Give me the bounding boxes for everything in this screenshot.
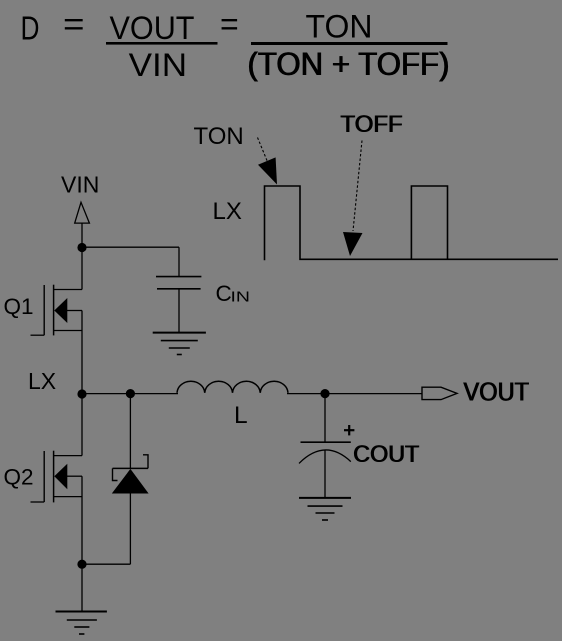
capacitor COUT top lead <box>324 394 326 443</box>
wire ground node to diode <box>82 563 130 565</box>
wire Q1 source to LX <box>81 311 83 395</box>
node ground junction dot <box>77 560 86 569</box>
Q2 gate bar <box>43 451 45 502</box>
svg-text:C: C <box>216 281 232 306</box>
formula fraction bar 1 <box>106 42 218 45</box>
svg-text:(TON + TOFF): (TON + TOFF) <box>248 46 450 82</box>
Q2 source lead <box>54 496 82 498</box>
waveform LX trace <box>265 186 559 260</box>
Q1 drain wire <box>81 248 83 290</box>
capacitor CIN top plate <box>156 276 201 278</box>
svg-text:TON: TON <box>194 123 244 150</box>
svg-text:IN: IN <box>231 290 251 306</box>
capacitor COUT curved plate <box>299 450 351 463</box>
wire VIN node to CIN <box>82 246 179 248</box>
diode D1 top lead <box>129 394 131 469</box>
wire VIN arrow to node <box>81 223 83 243</box>
Q1 body arrow <box>54 298 67 323</box>
Q2 channel bar <box>53 451 55 503</box>
VOUT terminal tag <box>422 387 457 399</box>
diode D1 cathode bar <box>113 467 149 469</box>
Q2 gate stub <box>31 501 45 503</box>
Q1 drain lead <box>54 289 82 291</box>
svg-text:Q2: Q2 <box>4 464 34 489</box>
wire Q2 source to ground node <box>81 476 83 564</box>
Q2 drain lead <box>54 455 82 457</box>
capacitor CIN bottom plate <box>157 288 201 290</box>
Q1 source lead <box>54 330 82 332</box>
svg-text:TON: TON <box>306 8 373 44</box>
Q2 body arrow <box>54 464 67 490</box>
Q1 gate stub <box>31 334 45 336</box>
diode D1 cathode left hook <box>113 468 118 480</box>
node LX junction dot <box>77 389 86 398</box>
svg-text:VOUT: VOUT <box>464 377 530 407</box>
wire inductor to VOUT tag <box>287 393 422 395</box>
svg-text:D: D <box>21 10 40 47</box>
node VIN junction dot <box>77 243 86 252</box>
wire LX to inductor <box>82 393 178 395</box>
diode D1 cathode right hook <box>143 455 148 469</box>
node diode junction dot <box>126 389 135 398</box>
svg-text:VOUT: VOUT <box>110 10 195 46</box>
wire ground node down <box>81 564 83 611</box>
ground below CIN <box>153 333 206 355</box>
capacitor CIN bottom lead <box>178 289 180 333</box>
node COUT junction dot <box>320 389 329 398</box>
svg-text:COUT: COUT <box>354 441 420 468</box>
Q1 channel bar <box>53 285 55 336</box>
inductor L <box>177 381 288 393</box>
svg-text:LX: LX <box>28 368 56 394</box>
svg-text:L: L <box>234 402 248 429</box>
svg-text:VIN: VIN <box>61 172 99 198</box>
capacitor COUT plus sign <box>344 425 354 435</box>
VIN terminal arrow <box>75 202 90 223</box>
ground below COUT <box>299 498 351 520</box>
Q1 gate bar <box>43 285 45 335</box>
diode D1 bottom lead <box>129 494 131 565</box>
svg-text:LX: LX <box>213 198 242 225</box>
waveform TOFF arrow leader <box>353 141 362 232</box>
capacitor CIN top lead <box>178 247 180 276</box>
Q2 drain wire <box>81 394 83 456</box>
svg-text:TOFF: TOFF <box>341 111 403 138</box>
capacitor COUT top plate <box>301 441 351 443</box>
svg-text:Q1: Q1 <box>4 294 34 319</box>
svg-text:=: = <box>63 6 85 42</box>
capacitor COUT bottom lead <box>324 450 326 498</box>
Q2 body line <box>66 475 82 477</box>
svg-text:=: = <box>220 6 239 42</box>
waveform TOFF arrowhead <box>343 232 363 256</box>
ground main <box>56 612 107 635</box>
Q1 body line <box>66 310 82 312</box>
transistor Q2 <box>31 394 83 502</box>
waveform TON arrow leader <box>258 138 269 164</box>
waveform TON arrowhead <box>258 157 277 184</box>
transistor Q1 <box>31 248 83 336</box>
formula fraction bar 2 <box>251 42 448 45</box>
svg-text:VIN: VIN <box>129 47 188 83</box>
diode D1 anode triangle <box>112 469 149 494</box>
